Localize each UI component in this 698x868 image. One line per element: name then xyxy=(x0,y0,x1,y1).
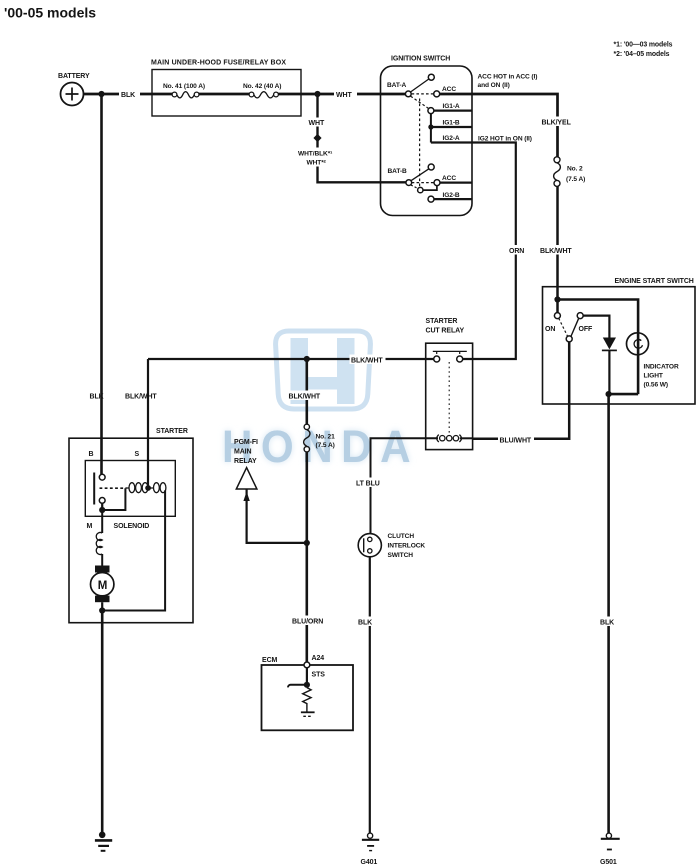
svg-text:'00-05 models: '00-05 models xyxy=(4,5,96,21)
svg-text:(7.5 A): (7.5 A) xyxy=(566,176,585,183)
solenoid plunger dashed xyxy=(100,487,127,489)
svg-text:No. 2: No. 2 xyxy=(567,166,583,173)
svg-text:STS: STS xyxy=(312,672,326,679)
wire WHT/BLK to BAT-B xyxy=(318,94,406,182)
svg-text:WHT: WHT xyxy=(309,120,325,127)
diode D xyxy=(603,338,616,350)
svg-text:BLU/WHT: BLU/WHT xyxy=(500,438,532,445)
svg-text:G401: G401 xyxy=(361,859,378,866)
starter motor M1 xyxy=(95,566,110,573)
watermark Honda emblem xyxy=(276,331,371,409)
wire fuse No.21 to ECM xyxy=(305,452,308,662)
svg-text:BAT-A: BAT-A xyxy=(387,82,406,89)
dashed mechanical link xyxy=(419,99,421,187)
wire motor to ground junction xyxy=(101,602,103,610)
wire engine start switch to G501 (BLK) xyxy=(607,394,610,833)
svg-text:A24: A24 xyxy=(312,655,325,662)
relay coil xyxy=(437,435,439,442)
wire starter to chassis ground xyxy=(101,611,104,835)
svg-text:BATTERY: BATTERY xyxy=(58,73,90,80)
label BLK (battery wire) xyxy=(88,391,109,401)
svg-text:No. 41 (100 A): No. 41 (100 A) xyxy=(163,83,205,90)
wire light to junction xyxy=(609,393,639,396)
svg-text:M: M xyxy=(87,523,93,530)
engine start switch box xyxy=(543,278,696,404)
wire battery to fuse box (BLK) xyxy=(84,93,175,96)
wire contact to M junction xyxy=(101,503,103,510)
svg-text:*1: '00—03 models: *1: '00—03 models xyxy=(614,42,673,49)
junction ECM internal xyxy=(304,682,310,688)
dashed link BAT-A to ACC xyxy=(412,93,434,95)
dashed link BAT-B to ACC xyxy=(412,182,434,184)
svg-text:(0.56 W): (0.56 W) xyxy=(644,382,668,389)
junction BLK/WHT branch xyxy=(304,356,310,362)
svg-text:BLK/WHT: BLK/WHT xyxy=(540,248,572,255)
svg-text:*2: '04–05 models: *2: '04–05 models xyxy=(614,51,670,58)
svg-text:ACC HOT in ACC (I): ACC HOT in ACC (I) xyxy=(478,74,538,81)
svg-text:BLU/ORN: BLU/ORN xyxy=(292,619,323,626)
junction bottom of engine start switch xyxy=(606,391,612,397)
wire switch arm to BLU/WHT xyxy=(473,342,570,439)
svg-text:(7.5 A): (7.5 A) xyxy=(316,442,335,449)
aux contact B xyxy=(418,187,423,192)
wire fuse box to ignition switch (WHT) xyxy=(278,93,405,96)
PGM-FI main relay arrow xyxy=(234,439,307,543)
motor feed coil xyxy=(101,510,103,533)
dashed link BAT-A to IG1-A xyxy=(411,96,429,108)
svg-text:B: B xyxy=(89,451,94,458)
junction WHT branch xyxy=(314,91,320,97)
label WHT (vertical) xyxy=(307,118,328,127)
svg-text:MAIN: MAIN xyxy=(234,449,252,456)
svg-text:INDICATOR: INDICATOR xyxy=(644,364,679,371)
svg-text:BLK/WHT: BLK/WHT xyxy=(289,394,321,401)
label BLK/WHT xyxy=(539,245,574,255)
svg-text:WHT/BLK*¹: WHT/BLK*¹ xyxy=(298,151,332,158)
junction PGM-FI branch xyxy=(304,540,310,546)
label BLU/WHT xyxy=(498,435,534,445)
watermark HONDA text xyxy=(222,421,419,472)
svg-text:STARTER: STARTER xyxy=(156,428,188,435)
svg-text:BLK: BLK xyxy=(358,620,372,627)
svg-text:ACC: ACC xyxy=(442,175,456,182)
solenoid inner box xyxy=(85,461,175,517)
label BLU/ORN xyxy=(291,616,325,626)
wire STS internal xyxy=(306,668,308,685)
svg-text:INTERLOCK: INTERLOCK xyxy=(388,543,426,550)
wire fuse No.2 down to engine start switch xyxy=(556,186,559,312)
svg-text:WHT*²: WHT*² xyxy=(307,160,327,167)
switch arm xyxy=(566,336,572,342)
ECM probe stub xyxy=(288,685,307,688)
main under-hood fuse/relay box xyxy=(151,60,301,117)
svg-text:ECM: ECM xyxy=(262,657,278,664)
ignition switch arm B xyxy=(411,169,429,181)
svg-text:M: M xyxy=(98,580,108,592)
ECM box xyxy=(262,657,354,730)
starter contact plate xyxy=(93,473,95,505)
battery xyxy=(58,73,90,106)
ECM zigzag resistor xyxy=(303,688,311,713)
wire OFF to diode xyxy=(583,316,609,338)
svg-text:and ON (II): and ON (II) xyxy=(478,82,510,89)
svg-text:STARTER: STARTER xyxy=(426,318,458,325)
wire IG2-A out (ORN) xyxy=(431,143,516,360)
solenoid coil xyxy=(125,487,165,489)
svg-text:No. 42 (40 A): No. 42 (40 A) xyxy=(243,83,281,90)
svg-text:IG2-A: IG2-A xyxy=(443,135,460,142)
junction in engine start switch xyxy=(554,296,560,302)
junction IG1-B xyxy=(428,124,433,129)
svg-text:BAT-B: BAT-B xyxy=(388,168,407,175)
wire diode to junction xyxy=(608,350,610,394)
wire BLK/WHT mid vertical xyxy=(305,359,308,424)
svg-text:BLK/YEL: BLK/YEL xyxy=(542,120,572,127)
svg-text:ON: ON xyxy=(545,326,555,333)
svg-text:BLK: BLK xyxy=(121,92,135,99)
svg-text:CLUTCH: CLUTCH xyxy=(388,533,415,540)
svg-text:No. 21: No. 21 xyxy=(316,434,336,441)
svg-text:BLK/WHT: BLK/WHT xyxy=(351,358,383,365)
fuse No.42 (40 A) xyxy=(243,83,281,98)
label BLK (right) xyxy=(599,617,620,627)
svg-text:IG2-B: IG2-B xyxy=(443,192,460,199)
ECM internal ground xyxy=(301,711,315,713)
svg-text:G501: G501 xyxy=(600,859,617,866)
relay contact terminals xyxy=(434,356,440,362)
wire relay coil left (LT BLU) xyxy=(371,438,439,533)
svg-text:IG1-B: IG1-B xyxy=(443,120,460,127)
label LT BLU xyxy=(355,478,381,488)
svg-text:SWITCH: SWITCH xyxy=(388,552,414,559)
svg-text:SOLENOID: SOLENOID xyxy=(114,523,150,530)
junction S on coil xyxy=(145,485,151,491)
wire IG1-A to IG2-A xyxy=(430,114,432,143)
fuse No.41 (100 A) xyxy=(163,83,205,98)
svg-text:RELAY: RELAY xyxy=(234,458,257,465)
junction battery branch xyxy=(98,91,104,97)
svg-text:CUT RELAY: CUT RELAY xyxy=(426,328,465,335)
label BLK/YEL xyxy=(540,117,573,127)
connector joint xyxy=(313,134,321,142)
svg-text:IGNITION SWITCH: IGNITION SWITCH xyxy=(391,56,450,63)
wire battery BLK vertical xyxy=(100,94,103,474)
svg-text:WHT: WHT xyxy=(336,92,352,99)
svg-text:OFF: OFF xyxy=(579,326,594,333)
relay dashed armature link xyxy=(448,362,450,433)
fuse No.21 (7.5 A) xyxy=(304,424,335,452)
starter box xyxy=(69,428,193,623)
svg-text:LT BLU: LT BLU xyxy=(356,481,380,488)
fuse No.2 (7.5 A) xyxy=(554,157,586,187)
wire between fuses xyxy=(199,93,249,96)
svg-text:ACC: ACC xyxy=(442,86,456,93)
svg-text:ENGINE START SWITCH: ENGINE START SWITCH xyxy=(615,278,694,285)
wire junction to indicator light xyxy=(558,300,639,395)
label BLK (left) xyxy=(357,617,378,627)
svg-text:IG1-A: IG1-A xyxy=(443,103,460,110)
wire coil to motor return xyxy=(102,490,165,610)
svg-text:LIGHT: LIGHT xyxy=(644,373,663,380)
wire S drop xyxy=(147,359,149,486)
label BLK xyxy=(119,90,140,99)
label WHT xyxy=(334,90,357,99)
ground G501 xyxy=(600,833,620,866)
svg-text:BLK/WHT: BLK/WHT xyxy=(125,394,157,401)
label BLK/WHT (on main line) xyxy=(350,355,386,365)
ground battery/starter xyxy=(95,832,112,851)
wire relay coil right (BLU/WHT) xyxy=(460,437,473,439)
starter cut relay box xyxy=(426,318,473,450)
svg-text:BLK: BLK xyxy=(600,620,614,627)
clutch interlock switch xyxy=(358,533,425,559)
wire M junction to coil xyxy=(102,488,125,510)
indicator light bulb xyxy=(627,333,649,355)
svg-text:S: S xyxy=(135,451,140,458)
svg-text:ORN: ORN xyxy=(509,248,524,255)
ignition switch arm A xyxy=(411,79,430,92)
wire ACC out to engine start switch (BLK/YEL) xyxy=(440,94,558,157)
starter contact top xyxy=(99,474,105,480)
svg-text:IG2 HOT in ON (II): IG2 HOT in ON (II) xyxy=(478,136,532,143)
label WHT/BLK*1 WHT*2 xyxy=(297,148,338,167)
relay contact bar xyxy=(433,350,467,352)
dashed link BAT-B to aux xyxy=(411,185,418,188)
wire clutch switch to G401 (BLK) xyxy=(369,557,371,833)
wire BLK/WHT main (starter S to relay) xyxy=(148,358,434,360)
label ORN xyxy=(508,245,528,255)
ignition switch box xyxy=(381,56,473,216)
starter contact bottom xyxy=(99,498,105,504)
svg-text:PGM-FI: PGM-FI xyxy=(234,439,258,446)
ground G401 xyxy=(361,833,380,866)
label BLK/WHT (mid) xyxy=(287,391,322,401)
svg-text:MAIN UNDER-HOOD FUSE/RELAY BOX: MAIN UNDER-HOOD FUSE/RELAY BOX xyxy=(151,60,286,67)
